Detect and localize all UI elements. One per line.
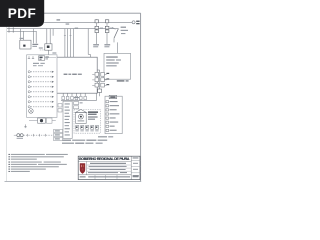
node ticks on left bus ends — [9, 27, 13, 32]
title block outer frame — [78, 156, 140, 179]
dashed circuit row 7 — [28, 101, 54, 103]
wire: four feeder drops to main panel — [64, 28, 78, 58]
drawing frame left border — [6, 13, 8, 181]
title block header text — [79, 157, 130, 161]
dashed circuit row 1 — [28, 71, 54, 73]
drawing frame bottom border — [5, 181, 142, 183]
notes text block — [8, 154, 67, 172]
label under CT2 — [104, 44, 110, 47]
junction boxes above detail box — [74, 102, 83, 109]
drawing frame top border — [7, 12, 141, 14]
terminal strip X1 — [63, 101, 72, 138]
feeder chain with nodes — [14, 134, 53, 139]
wire drop to meter CT — [47, 29, 53, 44]
caption line 1 under detail area — [62, 140, 107, 141]
caption line 2 under detail area — [62, 143, 103, 144]
dashed circuit row 6 — [28, 96, 54, 98]
dark terminal cluster — [39, 56, 57, 61]
wire drop to meter box M1 — [21, 29, 24, 41]
dashed circuit row 5 — [28, 91, 54, 93]
legend table — [105, 96, 122, 133]
main panel label — [64, 74, 82, 75]
svg-text:PDF: PDF — [8, 6, 36, 21]
right column cells — [131, 157, 140, 176]
lamp circle with X — [29, 109, 34, 114]
label Z at top right — [136, 21, 139, 25]
title block header divider — [78, 160, 131, 162]
wire: neutral bus — [7, 30, 37, 32]
ground symbol below box — [24, 124, 27, 127]
wire drop pair to label T1 — [34, 29, 37, 44]
dashed circuit row 2 — [28, 76, 54, 78]
notes box (right) — [104, 53, 131, 79]
label under CT1 — [93, 44, 99, 47]
drawing frame right border — [140, 13, 142, 181]
wire: main phase bus — [7, 28, 118, 30]
node: top bus right terminal circle — [132, 21, 135, 24]
wire: right feeder drops — [88, 29, 99, 70]
title block right column divider — [130, 156, 132, 179]
wire: top control bus — [44, 21, 132, 23]
current transformer CT2 — [105, 19, 113, 44]
dashed circuit row 8 — [28, 106, 54, 108]
main panel block U1 — [56, 57, 97, 93]
regional government shield logo — [80, 163, 85, 174]
label near feeders — [52, 52, 56, 53]
PDF badge — [0, 0, 44, 27]
terminal boxes right of rows box — [58, 104, 62, 112]
meter CT box — [45, 44, 52, 50]
meter box M1 — [20, 38, 31, 49]
dashed circuit row 3 — [28, 81, 54, 83]
bottom icon row in detail box — [75, 126, 98, 132]
disconnect switch S1 — [112, 27, 118, 42]
relay cluster labels — [106, 73, 109, 85]
distribution box (left rows) — [27, 55, 57, 118]
label under notes box — [117, 80, 129, 81]
small text rows under cluster — [33, 63, 45, 66]
switch labels — [121, 27, 128, 34]
relay cluster K1 — [92, 70, 106, 96]
label T1 — [32, 44, 38, 47]
detail box (dashed) — [74, 110, 100, 134]
wire: meter CT to panel — [48, 50, 50, 55]
dashed link to meter CT — [39, 47, 45, 50]
wire label above bottom rail — [74, 97, 79, 98]
relay bottom box — [98, 89, 102, 92]
stacked junction boxes left of terminal strip — [54, 129, 63, 140]
wire: panel bottom rail — [61, 93, 97, 100]
title block center text rows — [88, 163, 127, 173]
title block center row dividers — [78, 165, 131, 175]
motor box with dot — [29, 118, 45, 123]
legend rows — [106, 101, 119, 132]
label under legend table — [98, 136, 113, 137]
wire: switch to notes box — [116, 42, 118, 53]
ground symbols row — [28, 56, 34, 58]
svg-text:GOBIERNO REGIONAL DE PIURA: GOBIERNO REGIONAL DE PIURA — [79, 157, 130, 161]
label below top bus — [66, 23, 70, 24]
dashed circuit row 4 — [28, 86, 54, 88]
title block logo cell divider — [86, 161, 88, 174]
legend header — [109, 95, 116, 98]
meter detail icon with roof — [75, 109, 86, 123]
current transformer CT1 — [95, 19, 103, 44]
dark label text beside meter — [88, 111, 98, 119]
label above top bus — [57, 19, 61, 20]
panel bottom terminal stubs — [62, 93, 87, 99]
title block bottom band cells — [80, 175, 139, 180]
small aux box — [46, 118, 55, 123]
notes box text lines — [106, 56, 121, 66]
